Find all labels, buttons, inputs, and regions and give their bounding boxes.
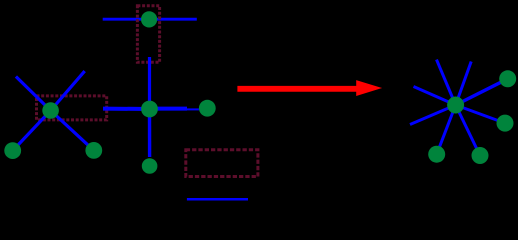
node: left hub	[42, 102, 59, 119]
wire: vertical edge from top group box to middle hub	[148, 57, 151, 109]
wire: star spoke north-northwest stub	[437, 60, 456, 105]
node: left cluster bottom-left	[4, 142, 21, 159]
wire: left cluster edge up-right stub	[51, 71, 85, 110]
wire: star spoke to right node	[456, 105, 505, 123]
node: star upper-right	[499, 70, 516, 87]
wire: thick horizontal edge middle hub to right node	[150, 107, 188, 111]
wire: horizontal line through top node (drawn under box)	[103, 18, 197, 21]
wire: horizontal edge from left group box to middle hub	[103, 107, 150, 111]
wire: star spoke to bottom-right node	[456, 105, 480, 156]
arrow: red transform arrow	[237, 80, 382, 96]
wire: star spoke north-northeast stub	[456, 62, 472, 106]
group box: dashed rectangle around top node	[137, 6, 159, 63]
wire: left cluster edge to bottom-left node	[13, 111, 51, 151]
node: middle right	[199, 100, 216, 117]
legend: blue line sample	[187, 198, 248, 201]
node: star bottom-left	[428, 146, 445, 163]
wire: star spoke to upper-right node	[456, 79, 508, 105]
wire: star spoke to bottom-left node	[437, 105, 456, 154]
wire: left cluster edge to bottom-right node	[51, 111, 94, 151]
legend: dashed rectangle sample	[186, 150, 258, 177]
node: middle bottom	[142, 158, 158, 174]
group box: dashed rectangle around left hub	[37, 96, 107, 120]
wire: left cluster edge up-left stub	[16, 77, 51, 111]
node: left cluster bottom-right	[85, 142, 102, 159]
wire: star spoke west-southwest stub	[410, 105, 456, 125]
node: star bottom-right	[472, 147, 489, 164]
node: star right	[497, 115, 514, 132]
node: star hub	[447, 97, 464, 114]
wire: thin horizontal edge tail to right node	[186, 108, 199, 110]
node: middle hub	[141, 101, 158, 118]
wire: star spoke west-northwest stub	[414, 87, 456, 106]
node: middle top	[141, 11, 157, 27]
wire: vertical edge middle hub to bottom node	[148, 109, 152, 157]
